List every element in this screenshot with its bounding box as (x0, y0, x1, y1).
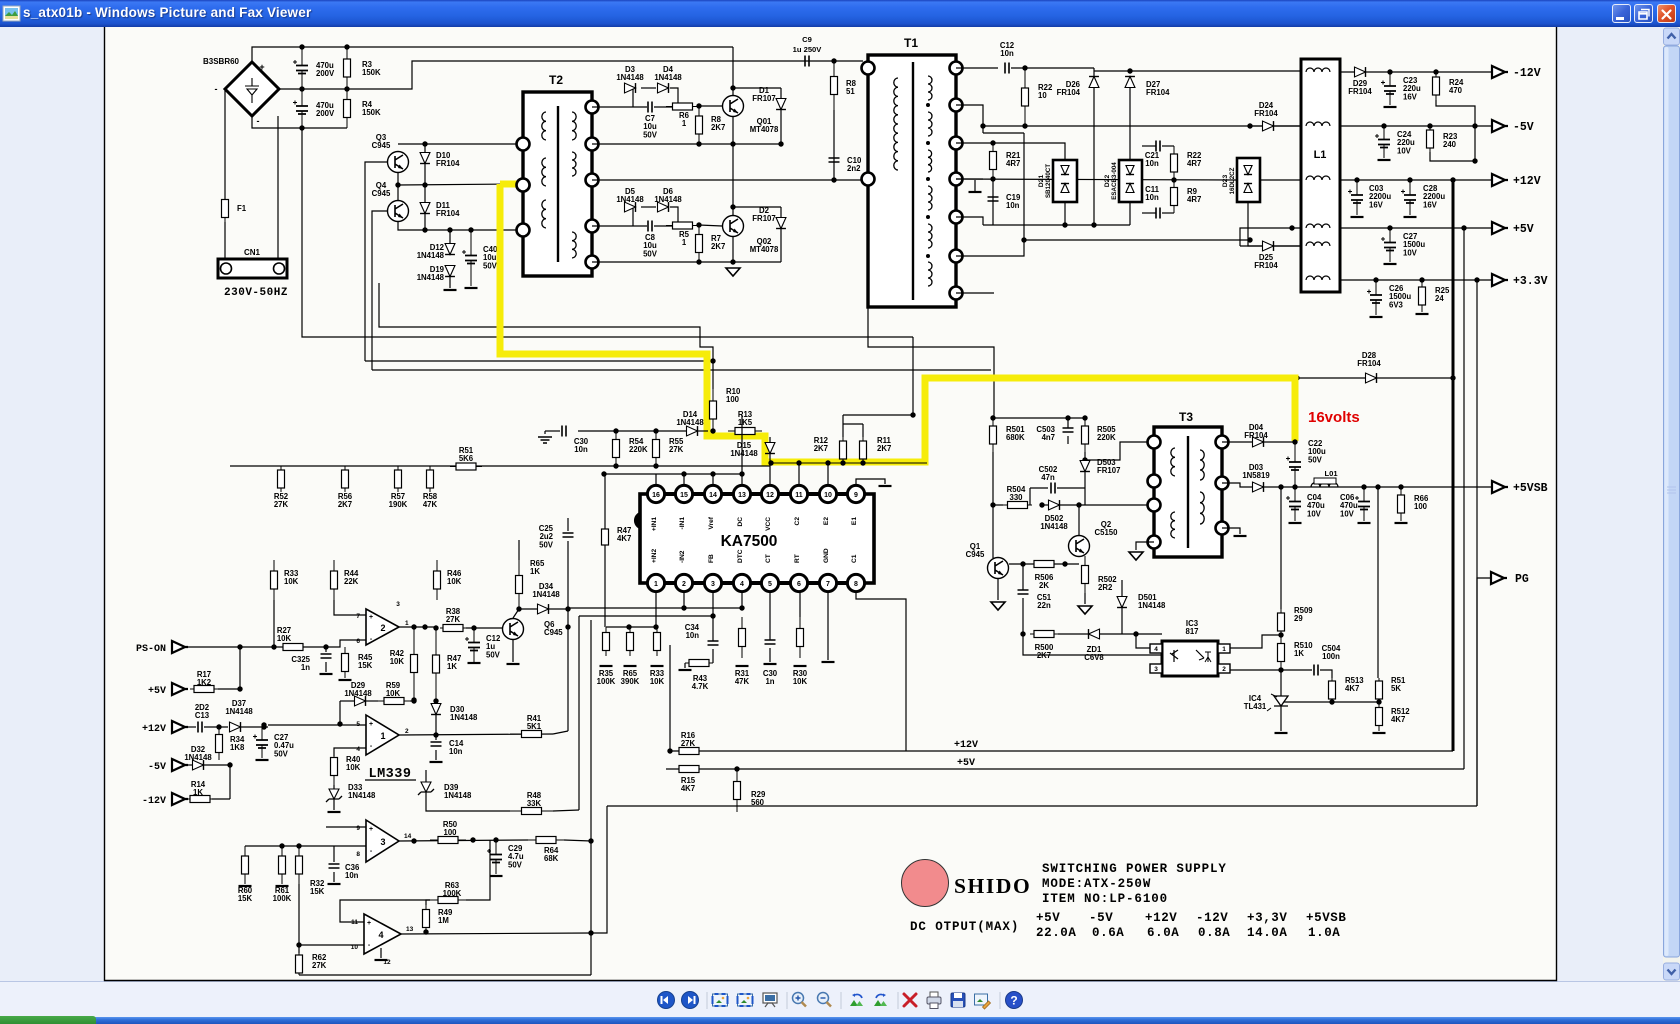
wire +5V double winding (1240, 228, 1301, 246)
resistor R504 330 (1003, 504, 1032, 506)
KA7500 pin 16 (647, 485, 664, 502)
resistor R33b 10K (273, 560, 275, 600)
wire (862, 424, 864, 437)
wire Q6 emitter (512, 640, 514, 662)
diode D33 1N4148 (333, 785, 335, 789)
ground (444, 289, 457, 291)
close button (1657, 4, 1676, 23)
output arrow +12V (1492, 174, 1508, 186)
capacitor C36 10n (333, 846, 335, 862)
ground op4 pin12 (380, 948, 382, 958)
wire pin14 (712, 474, 714, 485)
wire T2 to T1 (592, 173, 866, 180)
wire pin2 (683, 591, 685, 608)
capacitor C40 10u/50V (470, 230, 472, 286)
transistor Q1 C945 (988, 558, 1009, 579)
scrollbar track (1663, 27, 1680, 981)
capacitor C10 2n2 (829, 158, 840, 162)
resistor R510 1K (1280, 635, 1282, 670)
wire (1162, 212, 1174, 214)
wire drive row 2 (592, 143, 781, 145)
resistor R50 100 (430, 839, 466, 841)
wire pin10 (827, 463, 829, 485)
resistor R45 15K (344, 647, 346, 678)
connector CN1 (218, 259, 287, 278)
resistor R30 10K (799, 617, 801, 658)
op-amp U2-4 (LM339) (364, 914, 401, 954)
wire opto pin3 feed (1023, 634, 1162, 655)
wire opto pin1 (1230, 635, 1281, 648)
KA7500 pin 4 (733, 574, 750, 591)
KA7500 pin 15 (675, 485, 692, 502)
capacitor C14 10n (431, 742, 442, 746)
resistor R16 27K (672, 750, 706, 752)
wire to T3 pin2 (1143, 504, 1154, 506)
diode D2 FR107 (776, 218, 786, 229)
optocoupler IC3 817 (1162, 641, 1218, 676)
wire op4 - (299, 944, 364, 946)
wire 16V charge (1297, 377, 1453, 379)
capacitor C03 2200u/16V (1356, 180, 1358, 215)
wire bridge AC1 (224, 89, 226, 200)
resistor R8 2K7 (698, 106, 700, 144)
wire (956, 178, 983, 180)
wire Q6 base (466, 627, 502, 629)
resistor R65b 1K (518, 540, 520, 560)
wire +3.3V rail (1340, 279, 1492, 281)
wire R24 tie (1436, 100, 1475, 161)
toolbar separator (897, 992, 899, 1009)
wire +5V feed down (1463, 228, 1465, 769)
resistor R3 150K (346, 47, 348, 89)
svg-text:?: ? (1010, 994, 1017, 1008)
resistor R34 1K8 (218, 727, 220, 760)
wire pin3 bus (579, 615, 713, 617)
wire Q01 base (699, 105, 722, 107)
capacitor C27b 0.47u/50V (261, 727, 263, 758)
wire sec return (1024, 239, 1250, 241)
wire R23 tie (1430, 152, 1475, 161)
diode D6 1N4148 (641, 206, 656, 208)
wire (1029, 488, 1031, 505)
wire +5V rail (1340, 227, 1492, 229)
diode D19 1N4148 (445, 266, 455, 277)
wire drive row 4 (592, 261, 781, 263)
fuse F1 (224, 195, 226, 222)
resistor R506 2K (1030, 563, 1058, 565)
wire +310V top bus (252, 47, 733, 62)
wire pin14 bus (604, 473, 742, 475)
wire +12V rail (1340, 179, 1492, 181)
resistor R513 4K7 (1331, 678, 1333, 702)
op1 + input (344, 723, 366, 725)
wire pin13 (741, 415, 743, 485)
wire (1121, 580, 1123, 596)
wire (426, 800, 510, 811)
wire Q02 base (699, 225, 722, 226)
resistor R8 51 (833, 61, 835, 110)
zener ZD1 C6V8 (1058, 633, 1088, 635)
IC3 pin 4 (1150, 644, 1162, 653)
resistor R40 10K (333, 748, 335, 785)
wire D27 to D22 (1129, 88, 1131, 160)
capacitor C1 470u/200V (301, 47, 303, 89)
wire op4 + (340, 900, 430, 922)
wire (983, 224, 1130, 226)
capacitor C21 10n (1156, 141, 1160, 152)
resistor R29 560 (736, 769, 738, 812)
resistor R38 27K (440, 627, 466, 629)
output arrow +3.3V (1492, 274, 1508, 286)
ground (726, 268, 740, 276)
capacitor C22 100u/50V (1294, 442, 1296, 487)
KA7500 pin 13 (733, 485, 750, 502)
maximize button (1634, 4, 1653, 23)
KA7500 pin 3 (704, 574, 721, 591)
resistor R23 240 (1429, 126, 1431, 152)
capacitor C24 220u/10V (1383, 126, 1385, 158)
toolbar separator (840, 992, 842, 1009)
capacitor C12b 1u/50V (473, 628, 475, 662)
wire -12V rail (1340, 71, 1492, 73)
wire +5V sense rail (666, 768, 1464, 770)
T1 winding taps (926, 103, 930, 107)
diode D15 1N4148 (765, 443, 775, 454)
minimize button (1612, 4, 1631, 23)
button rotate clockwise (874, 1000, 882, 1006)
capacitor C19 10n (988, 197, 999, 201)
IC3 pin 3 (1150, 664, 1162, 673)
capacitor C8 10u/50V (648, 221, 652, 232)
diode D34 1N4148 (519, 608, 537, 610)
output arrow PG (1491, 572, 1507, 584)
resistor R27 10K (276, 646, 310, 648)
junction (299, 44, 304, 49)
capacitor C503 4n7 (1067, 418, 1069, 428)
wire pin4 (741, 591, 743, 608)
resistor R21 4R7 (992, 143, 994, 178)
wire +3.3V feed down (1476, 280, 1478, 806)
wire (591, 806, 607, 933)
logo circle (SHIDO) (902, 860, 949, 907)
shunt regulator IC4 TL431 (1280, 670, 1282, 696)
wire -5V feed bus (983, 125, 1301, 127)
wire T2 sec upper (592, 106, 647, 108)
wire (843, 423, 863, 425)
resistor R42 10K (413, 627, 415, 700)
resistor R505 220K (1084, 418, 1086, 452)
resistor R500 2K7 (1030, 633, 1058, 635)
diode D29 FR104 (1355, 67, 1366, 77)
IC3 pin 1 (1218, 644, 1230, 653)
button zoom in (793, 993, 804, 1004)
diode D14 1N4148 (687, 426, 698, 436)
button rotate counterclockwise (850, 1000, 858, 1006)
wire bridge negative (252, 116, 347, 128)
transistor Q01 MT4078 (723, 96, 744, 117)
transformer T2 (523, 92, 592, 276)
wire (997, 578, 999, 600)
window title bar (0, 0, 1680, 27)
wire (218, 688, 240, 690)
wire (229, 765, 231, 799)
bridge rectifier B3SBR60 (225, 62, 279, 116)
wire base drive bus C (365, 360, 713, 362)
resistor R10 100 (712, 389, 714, 431)
button help (1006, 992, 1023, 1009)
taskbar (0, 1017, 1680, 1024)
resistor R15 4K7 (672, 768, 706, 770)
transistor Q2 C5150 (1069, 536, 1090, 557)
wire vcc drop (912, 337, 914, 415)
capacitor C12 10n (1005, 63, 1009, 74)
wire Q3 collector row (398, 143, 517, 145)
toolbar separator (786, 992, 788, 1009)
resistor R52 (280, 466, 282, 492)
resistor R32 15K (298, 846, 300, 884)
KA7500 pin 10 (819, 485, 836, 502)
wire (1084, 452, 1086, 505)
transistor Q4 C945 (388, 201, 409, 222)
T3 pins (1148, 436, 1161, 449)
resistor R64 68K (528, 839, 564, 841)
diode D26 FR104 (1089, 77, 1099, 88)
diode D10 FR104 (420, 153, 430, 164)
wire Q3 base (365, 162, 387, 361)
resistor R512 4K7 (1378, 702, 1380, 731)
diode D4 1N4148 (641, 87, 656, 89)
dual diode D21 SB12040CT (1053, 160, 1077, 202)
wire Q2 collector (1078, 505, 1080, 536)
T2 pin over yellow (517, 179, 530, 192)
op-amp U2-2 (LM339) (366, 609, 399, 645)
wire base drive bus D (372, 369, 991, 371)
diode D502 1N4148 (1042, 504, 1048, 506)
diode D503 FR107 (1080, 461, 1090, 472)
wire sec -12V (956, 67, 998, 69)
resistor R51 5K (1378, 678, 1380, 702)
wire T2 drive node (398, 184, 517, 185)
toolbar separator (999, 992, 1001, 1009)
ground (1275, 732, 1288, 734)
wire pin7 gnd (827, 591, 829, 660)
wire pin9 (856, 479, 885, 485)
T1 pins (862, 62, 875, 75)
wire (1121, 608, 1123, 634)
button actual size (713, 994, 728, 1006)
KA7500 pin 8 (847, 574, 864, 591)
diode D3 1N4148 (632, 88, 634, 107)
scrollbar thumb (1664, 46, 1680, 957)
wire R35 bus (606, 626, 657, 628)
resistor R54 220K (615, 431, 617, 466)
wire (410, 700, 414, 702)
KA7500 pin 11 (790, 485, 807, 502)
scrollbar down button (1664, 963, 1680, 980)
wire Q1 base feed (992, 505, 994, 558)
KA7500 pin 9 (847, 485, 864, 502)
capacitor C29 4.7u/50V (495, 840, 497, 874)
wire (956, 240, 1024, 256)
resistor R63 100K (430, 899, 466, 901)
resistor R43 4K7 (685, 662, 713, 664)
wire (334, 845, 366, 847)
button edit (975, 994, 988, 1005)
vertical scrollbar (1656, 27, 1680, 1024)
button previous image (658, 992, 675, 1009)
button next image (682, 992, 699, 1009)
transistor Q6 C945 (503, 619, 524, 640)
capacitor C504 100n (1281, 669, 1312, 671)
resistor R41 5K1 (510, 733, 553, 735)
resistor R47 4K7 (604, 474, 606, 529)
capacitor C7 10u/50V (648, 102, 652, 113)
wire pin6 (799, 591, 801, 617)
wire (1009, 563, 1079, 565)
wire op3 out (399, 840, 528, 841)
resistor R47b 1K (435, 628, 437, 700)
ground (991, 602, 1005, 610)
KA7500 pin 2 (675, 574, 692, 591)
wire (669, 645, 671, 751)
wire +5V rect feed (956, 143, 1065, 160)
ground (1129, 552, 1143, 560)
ground (1078, 606, 1092, 614)
toolbar separator (706, 992, 708, 1009)
wire bottom bus (299, 974, 591, 976)
ground (1373, 732, 1386, 734)
title bar icon (1, 1, 29, 28)
output arrow +5VSB (1492, 481, 1508, 493)
wire T3 sec gnd (1222, 528, 1240, 534)
wire (992, 178, 994, 225)
resistor R58 (429, 466, 431, 492)
diode D501 1N4148 (1117, 597, 1127, 608)
wire pin16 (655, 474, 657, 485)
wire mid bus to T1 (279, 61, 863, 89)
wire standby top bus (993, 417, 1085, 419)
wire op3 divider (245, 845, 334, 847)
resistor R48 33K (510, 810, 553, 812)
wire divider bus (230, 465, 770, 467)
wire Q02 emitter (732, 237, 734, 262)
resistor R7 2K7 (698, 225, 700, 262)
resistor R502 2R2 (1084, 556, 1086, 593)
resistor R22 4R7b (1173, 146, 1175, 180)
ground (879, 485, 892, 487)
diode D25 FR104 (1240, 245, 1262, 247)
wire (564, 840, 591, 841)
op-amp U2-1 (LM339) (366, 715, 399, 755)
button print (930, 992, 938, 997)
wire (553, 810, 579, 811)
wire 16V rail (1222, 441, 1295, 443)
wire fuse to connector (224, 222, 226, 261)
wire +12V sense (268, 724, 366, 726)
wire to C10 (833, 110, 835, 180)
output arrow -5V (1492, 120, 1508, 132)
wire primary return bus (302, 128, 913, 337)
wire 16V highlight (yellow) (500, 184, 1295, 462)
dual diode D22 ESACB3-004 (1119, 160, 1142, 202)
wire pwm feed (578, 430, 687, 432)
wire +12V rect row (956, 179, 1237, 180)
resistor R61 100K (281, 846, 283, 884)
diode D1 FR107 (776, 99, 786, 110)
resistor R33 10K (656, 627, 658, 656)
diode D30 1N4148 (431, 704, 441, 715)
diode D27 FR104 (1125, 77, 1135, 88)
KA7500 pin 1 (647, 574, 664, 591)
diode D11 FR104 (420, 203, 430, 214)
wire (339, 701, 341, 724)
transistor Q3 C945 (388, 152, 409, 173)
ground (465, 287, 478, 289)
wire (1162, 145, 1174, 147)
wire D22 out (1129, 202, 1131, 225)
diode D12 1N4148 (445, 244, 455, 255)
wire center tap (956, 105, 983, 133)
wire (1023, 133, 1025, 240)
resistor R35 100K (605, 627, 607, 656)
resistor R51 5K6 (450, 466, 482, 468)
resistor R46 10K (436, 560, 438, 600)
wire (1136, 634, 1150, 648)
diode D04 FR104 (1253, 437, 1264, 447)
resistor R501 680K (992, 418, 994, 452)
resistor R49 1M (425, 905, 427, 932)
resistor R55 27K (655, 431, 657, 466)
wire T3 gnd (1136, 542, 1154, 550)
capacitor C23 220u/16V (1389, 72, 1391, 105)
wire (956, 217, 983, 225)
ground (969, 191, 982, 193)
wire TL431 ref (1281, 701, 1379, 703)
wire pin11 (798, 463, 800, 485)
wire (298, 884, 300, 953)
resistor R5 1 (666, 225, 699, 227)
wire (239, 647, 241, 689)
resistor R22 10 (1024, 68, 1026, 126)
resistor R11 2K7 (862, 437, 864, 463)
wire op4 out (401, 933, 591, 934)
inductor L01 (1311, 483, 1338, 488)
resistor R66 100 (1400, 487, 1402, 521)
diode D29b 1N4148 (340, 700, 354, 702)
wire vert B (578, 616, 580, 810)
wire D23 to L1 (1248, 202, 1301, 246)
capacitor C325 1n (325, 647, 327, 652)
T2 pins (517, 138, 530, 151)
wire D21 out (1064, 202, 1066, 225)
resistor R13 1K5 (728, 430, 762, 432)
wire R12 top bus (843, 414, 913, 416)
wire vert C (590, 620, 592, 975)
wire (956, 292, 994, 294)
button zoom out (818, 993, 829, 1004)
resistor R25 24 (1421, 280, 1423, 312)
wire op1 - (334, 748, 366, 756)
wire Q4 emitter row (398, 221, 517, 230)
button best fit (738, 994, 753, 1006)
wire Q02 collector (732, 144, 734, 215)
diode D37 1N4148 (230, 722, 241, 732)
wire -5V rail (1340, 125, 1492, 127)
wire (993, 452, 1003, 505)
KA7500 pin bar top (656, 492, 856, 496)
wire Q01 collector (732, 47, 734, 95)
dual diode D23 16DL2CZ (1237, 158, 1260, 202)
